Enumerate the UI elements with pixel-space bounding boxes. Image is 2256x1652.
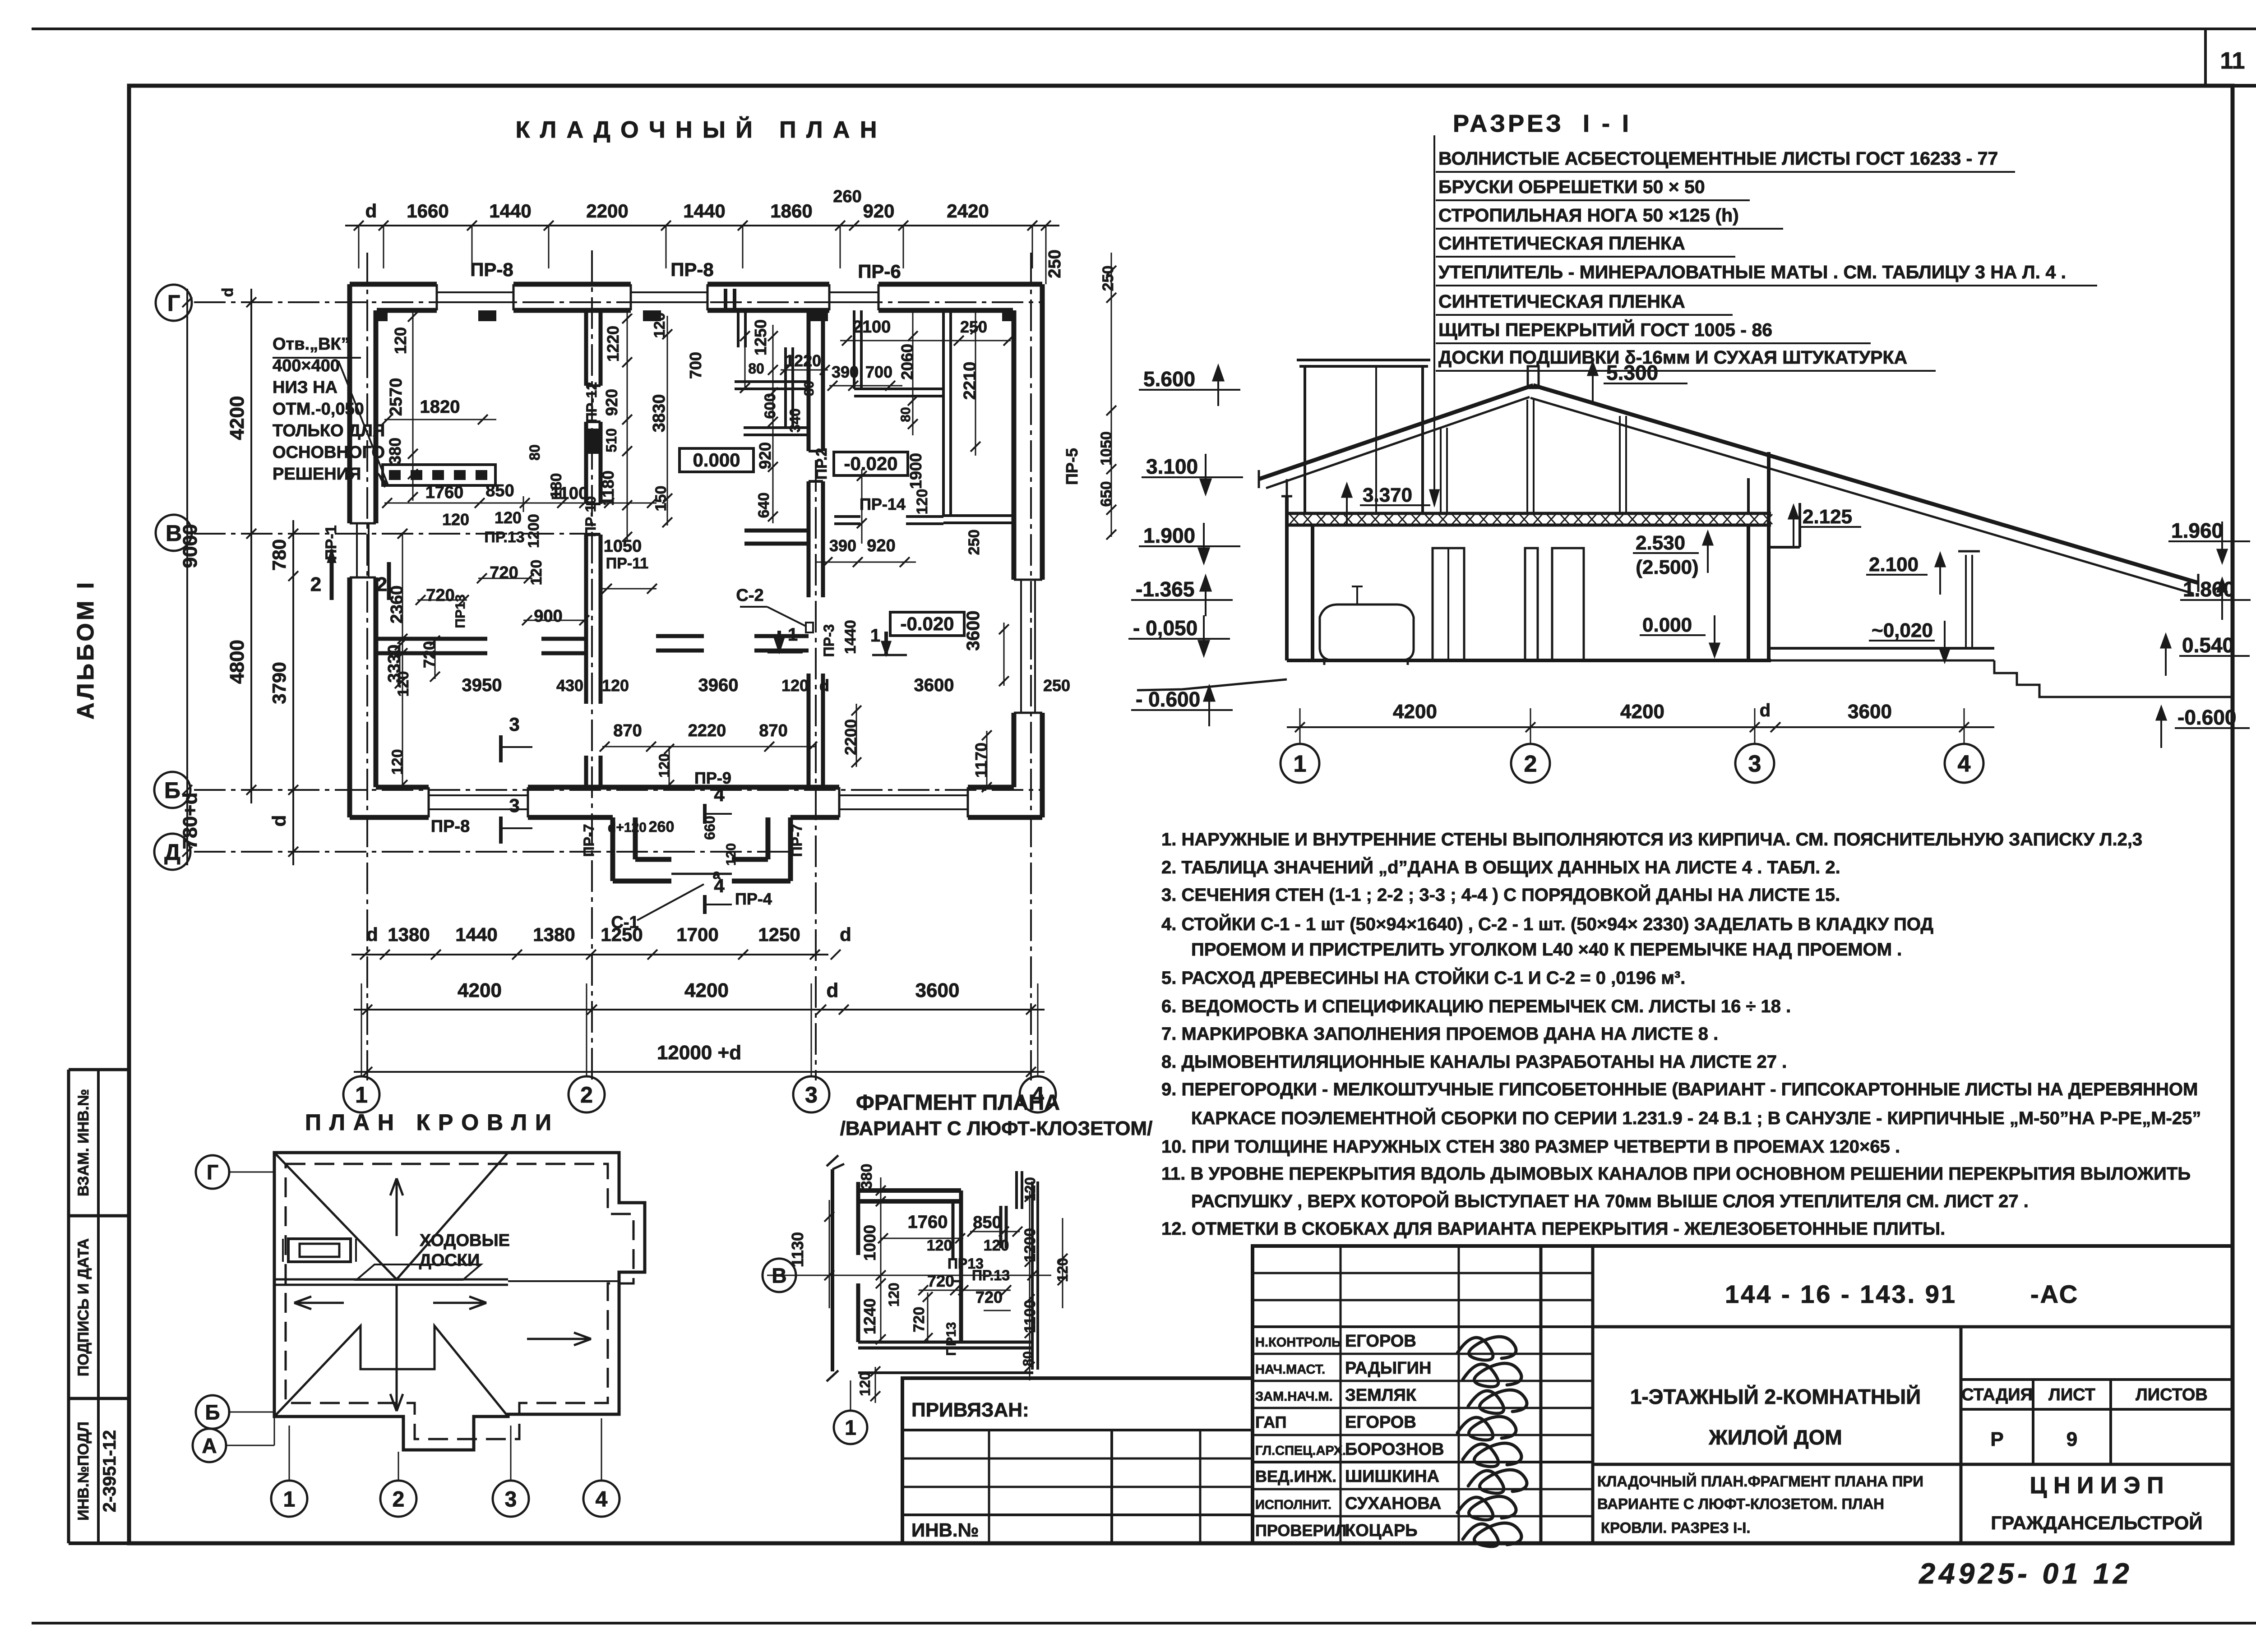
svg-text:3: 3 (509, 714, 519, 735)
svg-text:920: 920 (867, 536, 895, 555)
svg-text:1900: 1900 (906, 453, 925, 489)
svg-text:12000 +d: 12000 +d (657, 1042, 741, 1064)
svg-text:ПРОВЕРИЛ: ПРОВЕРИЛ (1255, 1521, 1347, 1540)
svg-text:700: 700 (686, 352, 705, 379)
svg-text:1240: 1240 (860, 1298, 879, 1334)
svg-text:4800: 4800 (226, 640, 248, 684)
svg-text:1660: 1660 (407, 200, 448, 221)
svg-text:920: 920 (756, 442, 774, 469)
svg-text:3790: 3790 (268, 662, 290, 704)
svg-text:720: 720 (927, 1272, 954, 1290)
svg-text:850: 850 (485, 481, 514, 500)
svg-text:1. НАРУЖНЫЕ И ВНУТРЕННИЕ СТЕН: 1. НАРУЖНЫЕ И ВНУТРЕННИЕ СТЕНЫ ВЫПОЛНЯЮТ… (1161, 830, 2142, 849)
svg-text:510: 510 (603, 428, 619, 452)
svg-text:3: 3 (509, 795, 519, 816)
svg-text:870: 870 (613, 721, 642, 740)
svg-text:ПР13: ПР13 (944, 1322, 959, 1356)
svg-text:1820: 1820 (420, 397, 460, 417)
svg-text:120: 120 (984, 1237, 1009, 1254)
svg-text:ПР.13: ПР.13 (972, 1267, 1010, 1283)
svg-text:1200: 1200 (1022, 1228, 1039, 1262)
svg-text:720: 720 (420, 641, 439, 668)
svg-text:10. ПРИ ТОЛЩИНЕ НАРУЖНЫХ СТ: 10. ПРИ ТОЛЩИНЕ НАРУЖНЫХ СТЕН 380 РАЗМЕР… (1161, 1137, 1900, 1157)
svg-text:2060: 2060 (898, 344, 916, 380)
svg-text:Д: Д (164, 840, 180, 865)
svg-text:Г: Г (207, 1161, 218, 1184)
svg-text:3: 3 (805, 1082, 818, 1107)
svg-text:250: 250 (1043, 676, 1070, 695)
svg-text:ВЕД.ИНЖ.: ВЕД.ИНЖ. (1255, 1467, 1336, 1486)
svg-text:ЕГОРОВ: ЕГОРОВ (1345, 1332, 1416, 1351)
svg-text:ЛИСТОВ: ЛИСТОВ (2136, 1385, 2208, 1404)
svg-text:430: 430 (556, 676, 583, 695)
svg-text:РАЗРЕЗ I - I: РАЗРЕЗ I - I (1453, 110, 1632, 137)
svg-text:80: 80 (1021, 1351, 1036, 1366)
svg-text:СИНТЕТИЧЕСКАЯ ПЛЕНКА: СИНТЕТИЧЕСКАЯ ПЛЕНКА (1438, 291, 1685, 312)
svg-text:ГАП: ГАП (1255, 1413, 1287, 1431)
svg-text:1760: 1760 (425, 483, 464, 502)
svg-text:120: 120 (656, 753, 672, 777)
svg-text:ПР-8: ПР-8 (431, 817, 470, 836)
svg-text:ПР-5: ПР-5 (1063, 448, 1081, 485)
svg-text:d+120: d+120 (608, 820, 647, 835)
svg-text:Р: Р (1990, 1428, 2003, 1450)
svg-text:К Л А Д О Ч Н Ы Й П Л А Н: К Л А Д О Ч Н Ы Й П Л А Н (516, 116, 879, 143)
svg-text:Н.КОНТРОЛЬ: Н.КОНТРОЛЬ (1255, 1335, 1341, 1350)
svg-text:КРОВЛИ. РАЗРЕЗ I-I.: КРОВЛИ. РАЗРЕЗ I-I. (1601, 1519, 1751, 1536)
svg-text:120: 120 (781, 676, 809, 695)
svg-text:1180: 1180 (599, 471, 617, 506)
svg-text:4: 4 (714, 784, 725, 805)
svg-text:120: 120 (1054, 1258, 1071, 1282)
svg-text:ЩИТЫ ПЕРЕКРЫТИЙ ГОСТ 1005 -: ЩИТЫ ПЕРЕКРЫТИЙ ГОСТ 1005 - 86 (1438, 319, 1772, 340)
svg-text:d: d (365, 200, 377, 221)
svg-text:ДОСКИ ПОДШИВКИ δ-16мм И СУХА: ДОСКИ ПОДШИВКИ δ-16мм И СУХАЯ ШТУКАТУРКА (1438, 347, 1907, 368)
svg-text:1220: 1220 (785, 351, 821, 370)
svg-text:5. РАСХОД ДРЕВЕСИНЫ НА СТОЙ: 5. РАСХОД ДРЕВЕСИНЫ НА СТОЙКИ С-1 И С-2 … (1161, 967, 1685, 988)
svg-text:600: 600 (762, 393, 779, 419)
svg-text:3830: 3830 (650, 394, 669, 433)
svg-text:80: 80 (802, 381, 817, 396)
svg-text:2: 2 (310, 573, 321, 595)
svg-text:390: 390 (829, 536, 856, 555)
svg-text:d: d (819, 676, 829, 695)
svg-text:1250: 1250 (758, 924, 800, 945)
svg-text:4. СТОЙКИ С-1 - 1 шт (50×94×: 4. СТОЙКИ С-1 - 1 шт (50×94×1640) , С-2 … (1161, 914, 1933, 934)
svg-text:1250: 1250 (751, 319, 770, 355)
svg-text:640: 640 (755, 493, 772, 518)
svg-text:ПР-8: ПР-8 (470, 259, 513, 280)
svg-text:120: 120 (602, 676, 629, 695)
svg-text:4200: 4200 (1393, 701, 1437, 723)
svg-text:9. ПЕРЕГОРОДКИ - МЕЛКОШТУЧНЫЕ: 9. ПЕРЕГОРОДКИ - МЕЛКОШТУЧНЫЕ ГИПСОБЕТОН… (1161, 1080, 2198, 1099)
svg-text:- 0,050: - 0,050 (1133, 616, 1197, 640)
svg-text:1: 1 (788, 625, 798, 645)
svg-text:УТЕПЛИТЕЛЬ - МИНЕРАЛОВАТНЫЕ М: УТЕПЛИТЕЛЬ - МИНЕРАЛОВАТНЫЕ МАТЫ . СМ. Т… (1438, 262, 2066, 282)
svg-text:1130: 1130 (788, 1232, 807, 1267)
svg-text:250: 250 (966, 530, 983, 555)
svg-text:250: 250 (1100, 266, 1117, 291)
svg-text:120: 120 (391, 327, 410, 354)
svg-text:120: 120 (495, 508, 522, 527)
svg-text:720: 720 (426, 586, 454, 605)
svg-text:4: 4 (1958, 751, 1971, 777)
svg-text:ПР-12: ПР-12 (583, 382, 600, 423)
svg-text:3330: 3330 (385, 645, 404, 683)
svg-text:ВОЛНИСТЫЕ АСБЕСТОЦЕМЕНТНЫЕ Л: ВОЛНИСТЫЕ АСБЕСТОЦЕМЕНТНЫЕ ЛИСТЫ ГОСТ 16… (1438, 148, 1998, 169)
svg-text:d: d (1760, 701, 1771, 720)
svg-text:1-ЭТАЖНЫЙ 2-КОМНАТНЫЙ: 1-ЭТАЖНЫЙ 2-КОМНАТНЫЙ (1630, 1385, 1921, 1408)
svg-text:7. МАРКИРОВКА ЗАПОЛНЕНИЯ ПР: 7. МАРКИРОВКА ЗАПОЛНЕНИЯ ПРОЕМОВ ДАНА НА… (1161, 1024, 1718, 1044)
svg-text:БОРОЗНОВ: БОРОЗНОВ (1345, 1440, 1444, 1459)
svg-text:1050: 1050 (1098, 431, 1115, 466)
svg-text:КОЦАРЬ: КОЦАРЬ (1345, 1521, 1418, 1540)
svg-text:ПР-9: ПР-9 (694, 769, 731, 787)
svg-text:(2.500): (2.500) (1636, 556, 1698, 578)
svg-text:6. ВЕДОМОСТЬ И СПЕЦИФИКАЦИЮ: 6. ВЕДОМОСТЬ И СПЕЦИФИКАЦИЮ ПЕРЕМЫЧЕК СМ… (1161, 997, 1791, 1016)
svg-text:340: 340 (787, 408, 803, 432)
svg-text:5.600: 5.600 (1143, 367, 1195, 391)
svg-text:3: 3 (1748, 751, 1761, 777)
svg-text:780+d: 780+d (179, 793, 201, 849)
svg-text:380: 380 (858, 1164, 875, 1190)
svg-text:2210: 2210 (961, 362, 980, 400)
svg-text:1860: 1860 (770, 200, 812, 221)
svg-text:ЖИЛОЙ ДОМ: ЖИЛОЙ ДОМ (1708, 1426, 1842, 1449)
svg-text:НАЧ.МАСТ.: НАЧ.МАСТ. (1255, 1362, 1325, 1377)
svg-text:720: 720 (975, 1288, 1003, 1306)
svg-text:80: 80 (748, 360, 764, 377)
svg-text:120: 120 (442, 510, 469, 529)
svg-text:d: d (827, 979, 839, 1001)
svg-text:4200: 4200 (684, 979, 729, 1001)
svg-text:260: 260 (649, 818, 675, 835)
svg-text:1220: 1220 (604, 326, 622, 362)
svg-text:2-3951-12: 2-3951-12 (100, 1430, 120, 1512)
svg-text:1: 1 (355, 1082, 368, 1107)
svg-text:3960: 3960 (698, 675, 739, 695)
svg-text:8. ДЫМОВЕНТИЛЯЦИОННЫЕ КАНАЛЫ: 8. ДЫМОВЕНТИЛЯЦИОННЫЕ КАНАЛЫ РАЗРАБОТАНЫ… (1161, 1052, 1787, 1072)
svg-text:120: 120 (927, 1237, 952, 1254)
svg-text:3950: 3950 (462, 675, 502, 695)
svg-text:- 0.600: - 0.600 (1136, 688, 1200, 711)
svg-text:1440: 1440 (489, 200, 531, 221)
svg-text:0.000: 0.000 (1642, 614, 1692, 636)
svg-text:2200: 2200 (586, 200, 628, 221)
svg-text:850: 850 (973, 1213, 1001, 1232)
svg-text:С-2: С-2 (736, 586, 763, 605)
svg-text:1440: 1440 (683, 200, 725, 221)
svg-text:9000: 9000 (179, 524, 201, 568)
svg-text:КАРКАСЕ ПОЭЛЕМЕНТНОЙ СБОРКИ: КАРКАСЕ ПОЭЛЕМЕНТНОЙ СБОРКИ ПО СЕРИИ 1.2… (1191, 1107, 2201, 1128)
svg-text:ИНВ.№ПОДЛ: ИНВ.№ПОДЛ (75, 1421, 92, 1520)
svg-text:БРУСКИ ОБРЕШЕТКИ 50 × 50: БРУСКИ ОБРЕШЕТКИ 50 × 50 (1438, 176, 1705, 197)
svg-text:2: 2 (580, 1082, 593, 1107)
svg-text:24925- 01 12: 24925- 01 12 (1919, 1557, 2132, 1590)
svg-text:РАСПУШКУ , ВЕРХ КОТОРОЙ ВЫСТУ: РАСПУШКУ , ВЕРХ КОТОРОЙ ВЫСТУПАЕТ НА 70м… (1191, 1191, 2029, 1211)
svg-text:1760: 1760 (908, 1212, 948, 1232)
svg-text:1: 1 (845, 1416, 856, 1440)
svg-text:920: 920 (602, 389, 621, 416)
svg-text:РАДЫГИН: РАДЫГИН (1345, 1359, 1431, 1378)
svg-text:80: 80 (898, 407, 913, 422)
svg-text:ОТМ.-0,050: ОТМ.-0,050 (273, 400, 364, 419)
svg-text:1380: 1380 (533, 924, 575, 945)
svg-text:ДОСКИ: ДОСКИ (419, 1251, 480, 1270)
svg-text:ЗАМ.НАЧ.М.: ЗАМ.НАЧ.М. (1255, 1389, 1333, 1404)
svg-text:НИЗ НА: НИЗ НА (273, 378, 337, 397)
svg-text:АЛЬБОМ I: АЛЬБОМ I (73, 580, 99, 720)
svg-text:3600: 3600 (914, 675, 954, 695)
svg-text:1: 1 (283, 1487, 296, 1511)
svg-text:3600: 3600 (1848, 701, 1892, 723)
svg-text:4200: 4200 (458, 979, 502, 1001)
svg-text:КЛАДОЧНЫЙ ПЛАН.ФРАГМЕНТ ПЛАНА: КЛАДОЧНЫЙ ПЛАН.ФРАГМЕНТ ПЛАНА ПРИ (1597, 1472, 1923, 1490)
svg-text:ПР-7: ПР-7 (581, 824, 597, 857)
svg-text:ПР-4: ПР-4 (735, 890, 772, 908)
svg-text:5.300: 5.300 (1606, 361, 1658, 384)
svg-text:3: 3 (505, 1487, 517, 1511)
svg-text:1.960: 1.960 (2171, 519, 2223, 542)
svg-text:ПР-8: ПР-8 (670, 259, 714, 280)
svg-text:ОСНОВНОГО: ОСНОВНОГО (273, 443, 385, 462)
svg-text:2200: 2200 (841, 719, 860, 755)
svg-text:2100: 2100 (853, 318, 891, 337)
svg-text:120: 120 (651, 313, 668, 338)
svg-text:СУХАНОВА: СУХАНОВА (1345, 1494, 1441, 1513)
svg-text:260: 260 (833, 187, 861, 206)
svg-text:ФРАГМЕНТ ПЛАНА: ФРАГМЕНТ ПЛАНА (856, 1091, 1060, 1115)
svg-text:d: d (366, 924, 378, 945)
svg-text:СТРОПИЛЬНАЯ НОГА 50 ×125 (h): СТРОПИЛЬНАЯ НОГА 50 ×125 (h) (1438, 205, 1739, 226)
svg-text:СИНТЕТИЧЕСКАЯ ПЛЕНКА: СИНТЕТИЧЕСКАЯ ПЛЕНКА (1438, 233, 1685, 254)
svg-text:-0.020: -0.020 (900, 613, 954, 634)
svg-text:400×400: 400×400 (273, 356, 340, 375)
svg-text:Б: Б (205, 1401, 220, 1424)
svg-text:780: 780 (268, 539, 290, 571)
svg-text:0.000: 0.000 (693, 449, 740, 471)
svg-text:1: 1 (1294, 751, 1307, 777)
svg-text:11. В УРОВНЕ ПЕРЕКРЫТИЯ ВД: 11. В УРОВНЕ ПЕРЕКРЫТИЯ ВДОЛЬ ДЫМОВЫХ КА… (1161, 1164, 2191, 1184)
svg-text:920: 920 (863, 200, 894, 221)
svg-text:1.860: 1.860 (2183, 577, 2235, 601)
svg-text:-АС: -АС (2030, 1280, 2079, 1308)
svg-text:3.370: 3.370 (1363, 484, 1412, 506)
svg-text:700: 700 (865, 363, 892, 381)
svg-text:-0.020: -0.020 (844, 453, 897, 474)
svg-text:120: 120 (389, 749, 406, 775)
svg-text:ПР-7: ПР-7 (789, 824, 805, 857)
svg-text:Ц Н И И Э П: Ц Н И И Э П (2030, 1472, 2164, 1499)
svg-text:380: 380 (386, 438, 404, 465)
svg-text:ШИШКИНА: ШИШКИНА (1345, 1467, 1439, 1486)
svg-text:ПОДПИСЬ И ДАТА: ПОДПИСЬ И ДАТА (75, 1238, 92, 1376)
svg-text:ХОДОВЫЕ: ХОДОВЫЕ (420, 1231, 510, 1250)
svg-text:2. ТАБЛИЦА ЗНАЧЕНИЙ „d”ДАНА: 2. ТАБЛИЦА ЗНАЧЕНИЙ „d”ДАНА В ОБЩИХ ДАНН… (1161, 857, 1840, 877)
svg-text:СТАДИЯ: СТАДИЯ (1961, 1385, 2033, 1404)
svg-text:1440: 1440 (842, 620, 859, 654)
svg-text:2: 2 (1524, 751, 1537, 777)
svg-text:0.540: 0.540 (2182, 633, 2234, 657)
svg-text:ПР.2: ПР.2 (813, 448, 830, 480)
svg-text:А: А (202, 1434, 217, 1458)
svg-text:3. СЕЧЕНИЯ СТЕН (1-1 ; 2-2: 3. СЕЧЕНИЯ СТЕН (1-1 ; 2-2 ; 3-3 ; 4-4 )… (1161, 884, 1840, 905)
svg-text:11: 11 (2220, 48, 2245, 74)
svg-text:12. ОТМЕТКИ В СКОБКАХ ДЛЯ: 12. ОТМЕТКИ В СКОБКАХ ДЛЯ ВАРИАНТА ПЕРЕК… (1161, 1219, 1945, 1239)
svg-text:Б: Б (164, 778, 180, 803)
svg-text:Г: Г (167, 291, 180, 316)
svg-text:120: 120 (857, 1372, 873, 1396)
svg-text:d: d (219, 288, 236, 297)
svg-text:ЕГОРОВ: ЕГОРОВ (1345, 1413, 1416, 1432)
svg-text:3.100: 3.100 (1146, 455, 1198, 478)
svg-text:1170: 1170 (972, 743, 990, 778)
svg-text:1440: 1440 (455, 924, 497, 945)
svg-text:4: 4 (714, 875, 725, 896)
svg-text:720: 720 (490, 563, 518, 582)
svg-text:ВЗАМ. ИНВ.№: ВЗАМ. ИНВ.№ (75, 1089, 92, 1196)
svg-text:120: 120 (528, 560, 545, 586)
svg-text:1.900: 1.900 (1143, 524, 1195, 547)
svg-text:4: 4 (596, 1487, 608, 1511)
svg-text:1: 1 (870, 626, 880, 646)
svg-text:ПР-3: ПР-3 (821, 624, 837, 657)
svg-text:ЗЕМЛЯК: ЗЕМЛЯК (1345, 1386, 1417, 1405)
svg-text:ИСПОЛНИТ.: ИСПОЛНИТ. (1255, 1498, 1331, 1512)
svg-text:3600: 3600 (963, 611, 983, 651)
svg-text:2.125: 2.125 (1803, 506, 1852, 528)
svg-text:ПР-11: ПР-11 (606, 555, 648, 572)
svg-text:1050: 1050 (604, 537, 642, 556)
svg-text:1100: 1100 (1022, 1300, 1039, 1333)
svg-text:250: 250 (1045, 249, 1064, 278)
svg-text:ГРАЖДАНСЕЛЬСТРОЙ: ГРАЖДАНСЕЛЬСТРОЙ (1991, 1512, 2202, 1533)
svg-text:1700: 1700 (676, 924, 718, 945)
svg-text:ПР.13: ПР.13 (484, 529, 524, 546)
svg-text:ПР13: ПР13 (453, 595, 468, 628)
svg-text:-0.600: -0.600 (2177, 706, 2236, 729)
svg-text:ВАРИАНТЕ С ЛЮФТ-КЛОЗЕТОМ. ПЛАН: ВАРИАНТЕ С ЛЮФТ-КЛОЗЕТОМ. ПЛАН (1597, 1495, 1884, 1512)
svg-text:2.530: 2.530 (1636, 532, 1685, 554)
svg-text:1000: 1000 (860, 1225, 879, 1261)
svg-text:1380: 1380 (388, 924, 430, 945)
svg-text:120: 120 (914, 489, 931, 515)
svg-text:870: 870 (759, 721, 787, 740)
svg-text:РЕШЕНИЯ: РЕШЕНИЯ (273, 465, 361, 484)
svg-text:4200: 4200 (226, 396, 248, 440)
svg-text:900: 900 (534, 607, 562, 626)
svg-text:ЛИСТ: ЛИСТ (2048, 1385, 2095, 1404)
svg-text:~0,020: ~0,020 (1872, 619, 1933, 641)
svg-text:-1.365: -1.365 (1136, 577, 1194, 601)
svg-text:d: d (268, 815, 290, 827)
svg-text:180: 180 (548, 473, 565, 499)
svg-text:150: 150 (652, 486, 670, 512)
svg-text:В: В (772, 1264, 786, 1287)
svg-text:П Л А Н К Р О В Л И: П Л А Н К Р О В Л И (305, 1110, 552, 1135)
svg-text:120: 120 (724, 843, 739, 866)
svg-text:2.100: 2.100 (1869, 554, 1919, 576)
svg-text:120: 120 (1022, 1177, 1038, 1201)
svg-text:3600: 3600 (915, 979, 960, 1001)
svg-text:650: 650 (1098, 481, 1115, 507)
svg-text:2570: 2570 (387, 378, 406, 416)
svg-text:250: 250 (960, 318, 987, 336)
svg-text:2220: 2220 (688, 721, 726, 740)
svg-text:С-1: С-1 (611, 913, 638, 932)
svg-text:ПРИВЯЗАН:: ПРИВЯЗАН: (911, 1399, 1029, 1421)
svg-text:/ВАРИАНТ С ЛЮФТ-КЛОЗЕТОМ/: /ВАРИАНТ С ЛЮФТ-КЛОЗЕТОМ/ (840, 1117, 1153, 1140)
svg-text:1200: 1200 (525, 514, 542, 548)
svg-text:ПР-6: ПР-6 (858, 261, 901, 282)
svg-text:Отв.„ВК”: Отв.„ВК” (273, 335, 350, 354)
svg-text:2420: 2420 (947, 200, 989, 221)
svg-text:ПР-14: ПР-14 (860, 495, 906, 513)
svg-text:2: 2 (393, 1487, 405, 1511)
svg-text:ПРОЕМОМ И ПРИСТРЕЛИТЬ УГОЛКОМ: ПРОЕМОМ И ПРИСТРЕЛИТЬ УГОЛКОМ L40 ×40 К … (1191, 940, 1902, 960)
svg-text:ГЛ.СПЕЦ.АРХ.: ГЛ.СПЕЦ.АРХ. (1255, 1444, 1346, 1458)
svg-text:d: d (840, 924, 851, 945)
svg-text:4200: 4200 (1620, 701, 1664, 723)
svg-text:ИНВ.№: ИНВ.№ (911, 1519, 979, 1541)
svg-text:80: 80 (527, 444, 543, 461)
svg-text:144 - 16 - 143. 91: 144 - 16 - 143. 91 (1725, 1280, 1957, 1308)
svg-text:720: 720 (911, 1307, 928, 1333)
svg-text:9: 9 (2066, 1428, 2077, 1450)
svg-text:120: 120 (886, 1283, 902, 1306)
svg-text:2: 2 (376, 573, 387, 595)
svg-text:390: 390 (832, 363, 859, 381)
